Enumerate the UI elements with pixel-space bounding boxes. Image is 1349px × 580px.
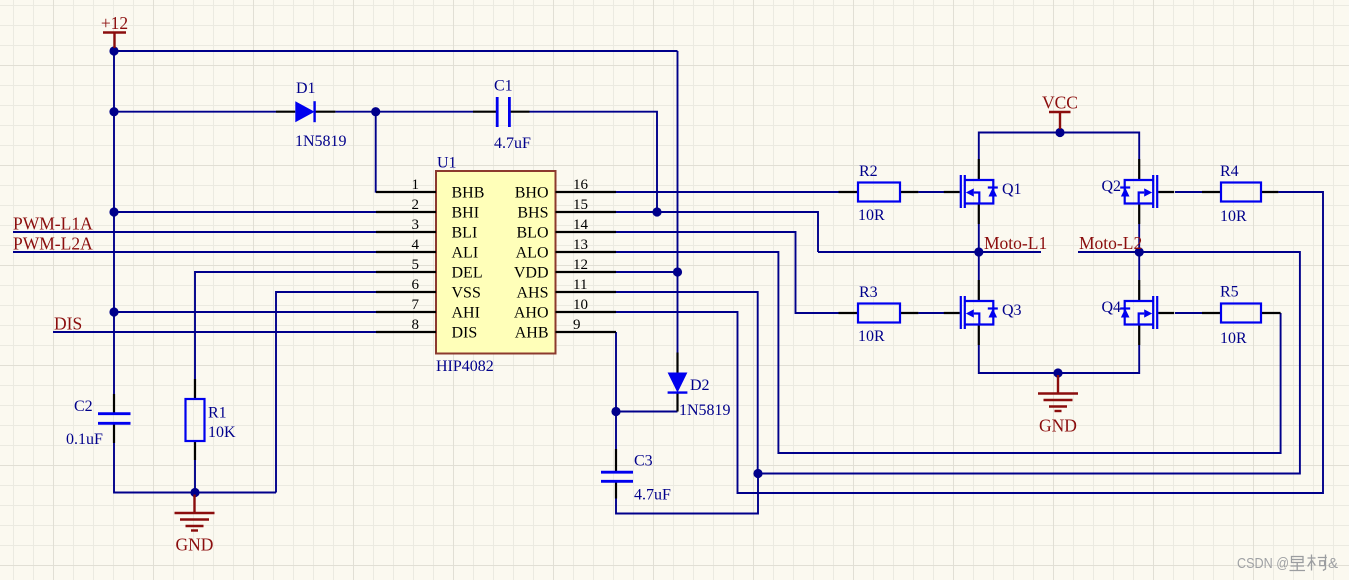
svg-text:Q4: Q4 bbox=[1101, 299, 1121, 316]
svg-text:BHS: BHS bbox=[517, 205, 548, 222]
svg-text:Q1: Q1 bbox=[1002, 181, 1022, 198]
wire rail to pin2 BHI bbox=[114, 211, 376, 213]
svg-text:5: 5 bbox=[412, 257, 420, 273]
ground symbol left bbox=[175, 495, 215, 531]
svg-text:R1: R1 bbox=[208, 405, 227, 422]
transistor Q4 bbox=[1120, 280, 1174, 345]
junction bridge ground node bbox=[1053, 368, 1062, 377]
wire VDD column vertical x=677.5 down to D2 bbox=[677, 51, 679, 353]
svg-text:R3: R3 bbox=[859, 284, 878, 301]
capacitor C3 bbox=[601, 449, 633, 499]
svg-text:10K: 10K bbox=[208, 424, 236, 441]
svg-text:GND: GND bbox=[1039, 416, 1077, 436]
svg-text:1N5819: 1N5819 bbox=[679, 402, 731, 419]
svg-text:DIS: DIS bbox=[452, 325, 478, 342]
watermark CSDN bbox=[1237, 555, 1338, 573]
svg-text:11: 11 bbox=[573, 277, 587, 293]
U1 pin 13 bbox=[516, 237, 616, 262]
wire pin12 VDD to junction bbox=[616, 271, 678, 273]
U1 pin 10 bbox=[514, 297, 616, 322]
wire C1 right to pin15 junction bbox=[530, 112, 658, 212]
wire Moto-L1 node horizontal bbox=[818, 251, 1041, 253]
wire C3 bottom return to AHS node bbox=[616, 474, 758, 514]
svg-text:AHO: AHO bbox=[514, 305, 549, 322]
svg-text:9: 9 bbox=[573, 317, 581, 333]
svg-text:4.7uF: 4.7uF bbox=[494, 135, 531, 152]
power +12 bbox=[103, 33, 126, 49]
wire VCC to Q1 Q2 drains bbox=[979, 133, 1139, 160]
wire Q2 source to Q4 drain via Moto-L2 bbox=[1138, 224, 1140, 280]
U1 pin 12 bbox=[514, 257, 616, 282]
svg-text:VCC: VCC bbox=[1042, 93, 1078, 113]
capacitor C1 bbox=[473, 97, 530, 127]
wire C2 bottom to gnd bottom wire bbox=[114, 443, 276, 493]
transistor Q3 bbox=[944, 280, 998, 345]
svg-text:15: 15 bbox=[573, 197, 588, 213]
svg-text:CSDN @: CSDN @ bbox=[1237, 555, 1289, 572]
svg-text:0.1uF: 0.1uF bbox=[66, 431, 103, 448]
U1 pin 3 bbox=[376, 217, 477, 242]
U1 pin 15 bbox=[517, 197, 616, 222]
wire rail to pin7 AHI bbox=[114, 311, 376, 313]
wire R5 left to Q4 gate bbox=[1175, 312, 1202, 314]
svg-text:10R: 10R bbox=[858, 328, 885, 345]
wire junction to pin1 BHB bbox=[375, 112, 377, 192]
wire pin14 BLO to R3 bbox=[616, 232, 839, 313]
svg-text:BHB: BHB bbox=[452, 185, 485, 202]
wire Moto-L2 node route bbox=[758, 252, 1300, 474]
svg-text:10R: 10R bbox=[1220, 208, 1247, 225]
svg-text:AHB: AHB bbox=[515, 325, 549, 342]
U1 pin 16 bbox=[515, 177, 616, 202]
junction VDD column / pin12 bbox=[673, 267, 682, 276]
wire R2 to Q1 gate bbox=[918, 191, 944, 193]
wire pin16 BHO to R2 bbox=[616, 191, 839, 193]
svg-text:D2: D2 bbox=[690, 377, 710, 394]
U1 pin 11 bbox=[516, 277, 616, 302]
svg-text:BHI: BHI bbox=[452, 205, 480, 222]
junction AHS / C3 return / Moto-L2 bbox=[753, 469, 762, 478]
svg-text:Moto-L2: Moto-L2 bbox=[1079, 233, 1142, 253]
wire R1 bottom to gnd junction bbox=[194, 460, 196, 493]
junction rail / D1 wire bbox=[109, 107, 118, 116]
U1 pin 5 bbox=[376, 257, 483, 282]
svg-text:12: 12 bbox=[573, 257, 588, 273]
resistor R2 bbox=[839, 183, 919, 202]
U1 pin 14 bbox=[517, 217, 617, 242]
svg-text:DEL: DEL bbox=[452, 265, 483, 282]
svg-text:GND: GND bbox=[176, 535, 214, 555]
svg-text:6: 6 bbox=[412, 277, 420, 293]
wire pin11 AHS down to Moto-L2 return bbox=[616, 292, 758, 474]
svg-text:10R: 10R bbox=[1220, 330, 1247, 347]
svg-text:&: & bbox=[1328, 555, 1338, 572]
junction D1 cathode node bbox=[371, 107, 380, 116]
svg-text:HIP4082: HIP4082 bbox=[436, 358, 494, 375]
svg-text:10R: 10R bbox=[858, 207, 885, 224]
svg-text:Q3: Q3 bbox=[1002, 302, 1022, 319]
svg-text:VDD: VDD bbox=[514, 265, 549, 282]
svg-text:ALI: ALI bbox=[452, 245, 479, 262]
resistor R4 bbox=[1202, 183, 1278, 202]
svg-text:C3: C3 bbox=[634, 453, 653, 470]
wire DIS to pin8 bbox=[53, 331, 376, 333]
wire pin15 BHS down to Moto-L1 bbox=[616, 212, 818, 252]
junction R1 bottom / gnd wire bbox=[190, 488, 199, 497]
junction rail / pin2 bbox=[109, 207, 118, 216]
svg-text:BLO: BLO bbox=[517, 225, 549, 242]
wire +12 left rail vertical x=114 bbox=[113, 51, 115, 394]
svg-text:+12: +12 bbox=[101, 13, 128, 33]
svg-text:ALO: ALO bbox=[516, 245, 549, 262]
transistor Q1 bbox=[944, 159, 998, 224]
wire Q1 source to Q3 drain via Moto-L1 bbox=[978, 224, 980, 280]
svg-text:3: 3 bbox=[412, 217, 420, 233]
wire R3 to Q3 gate bbox=[918, 312, 944, 314]
wire PWM-L1A to pin3 BLI bbox=[13, 231, 376, 233]
svg-text:4.7uF: 4.7uF bbox=[634, 487, 671, 504]
wire rail to D1 anode bbox=[114, 111, 276, 113]
svg-text:BHO: BHO bbox=[515, 185, 549, 202]
svg-text:PWM-L2A: PWM-L2A bbox=[13, 234, 93, 254]
svg-text:D1: D1 bbox=[296, 80, 316, 97]
transistor Q2 bbox=[1120, 159, 1174, 224]
wire pin6 VSS down to bottom gnd wire bbox=[276, 292, 376, 493]
wire pin13 ALO long route to R5 right bbox=[616, 252, 1281, 453]
svg-text:R5: R5 bbox=[1220, 284, 1239, 301]
svg-text:AHS: AHS bbox=[516, 285, 548, 302]
svg-text:C1: C1 bbox=[494, 78, 513, 95]
diode D1 bbox=[276, 101, 335, 122]
ground symbol right bbox=[1038, 375, 1078, 411]
svg-text:Moto-L1: Moto-L1 bbox=[984, 233, 1047, 253]
svg-text:C2: C2 bbox=[74, 398, 93, 415]
resistor R3 bbox=[839, 304, 919, 323]
svg-text:VSS: VSS bbox=[452, 285, 481, 302]
wire D1 cathode to C1 bbox=[335, 111, 473, 113]
capacitor C2 bbox=[98, 394, 131, 443]
junction D2 anode / C3 top bbox=[611, 407, 620, 416]
svg-text:16: 16 bbox=[573, 177, 589, 193]
svg-text:7: 7 bbox=[412, 297, 420, 313]
wire pin9 AHB down to D2/C3 bbox=[615, 332, 617, 449]
svg-text:U1: U1 bbox=[437, 155, 457, 172]
svg-text:13: 13 bbox=[573, 237, 588, 253]
power VCC bbox=[1049, 112, 1071, 129]
U1 pin 2 bbox=[376, 197, 479, 222]
wire R4 left to Q2 gate bbox=[1175, 191, 1202, 193]
svg-text:PWM-L1A: PWM-L1A bbox=[13, 214, 93, 234]
svg-text:R2: R2 bbox=[859, 163, 878, 180]
svg-text:10: 10 bbox=[573, 297, 588, 313]
svg-text:Q2: Q2 bbox=[1101, 178, 1121, 195]
svg-text:2: 2 bbox=[412, 197, 420, 213]
svg-text:1N5819: 1N5819 bbox=[295, 133, 347, 150]
junction Moto-L1 node bbox=[974, 247, 983, 256]
svg-text:R4: R4 bbox=[1220, 163, 1239, 180]
U1 pin 8 bbox=[376, 317, 477, 342]
U1 pin 4 bbox=[376, 237, 478, 262]
svg-text:AHI: AHI bbox=[452, 305, 480, 322]
wire pin10 AHO long route to R4 right bbox=[616, 192, 1323, 493]
op-amp U1 HIP4082 body bbox=[436, 171, 556, 354]
U1 pin 6 bbox=[376, 277, 481, 302]
U1 pin 1 bbox=[376, 177, 484, 202]
junction VCC node bbox=[1055, 128, 1064, 137]
wire PWM-L2A to pin4 ALI bbox=[13, 251, 376, 253]
wire Q3 Q4 sources to ground node bbox=[979, 345, 1139, 373]
resistor R1 bbox=[186, 379, 205, 460]
wire +12 top rail horizontal to VDD column bbox=[114, 50, 678, 52]
svg-text:BLI: BLI bbox=[452, 225, 478, 242]
wire pin5 DEL to R1 top bbox=[195, 272, 376, 379]
junction at +12 rail top bbox=[109, 46, 118, 55]
diode D2 bbox=[668, 353, 688, 412]
svg-text:DIS: DIS bbox=[54, 314, 82, 334]
U1 pin 7 bbox=[376, 297, 480, 322]
junction C1 to BHS bbox=[652, 207, 661, 216]
wire D2 cathode to AHB junction bbox=[616, 411, 678, 413]
resistor R5 bbox=[1202, 304, 1281, 323]
svg-text:4: 4 bbox=[412, 237, 420, 253]
svg-text:8: 8 bbox=[412, 317, 420, 333]
junction rail / pin7 bbox=[109, 307, 118, 316]
svg-text:14: 14 bbox=[573, 217, 589, 233]
U1 pin 9 bbox=[515, 317, 616, 342]
svg-text:1: 1 bbox=[412, 177, 420, 193]
junction Moto-L2 node bbox=[1135, 247, 1144, 256]
